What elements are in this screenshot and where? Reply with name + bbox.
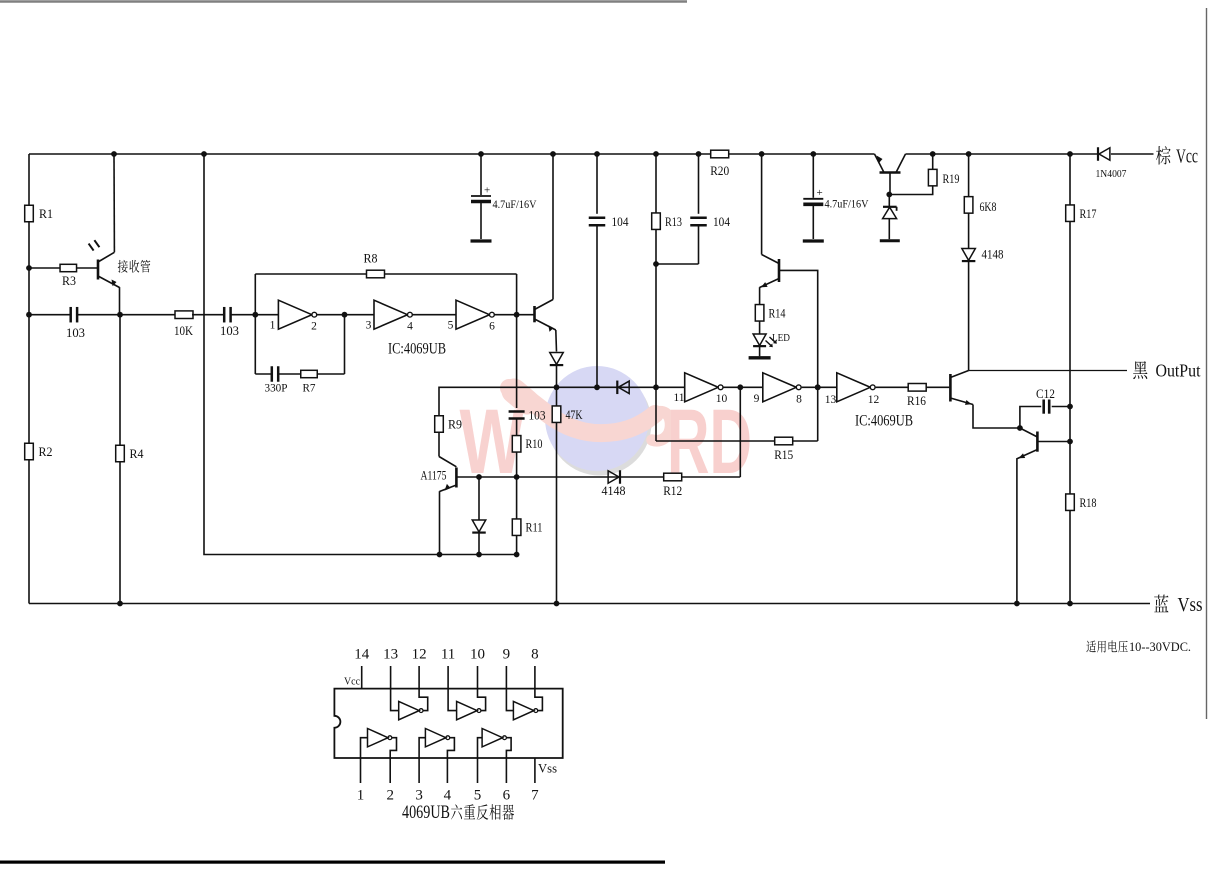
node R3 junction: [26, 265, 32, 271]
svg-text:Vss: Vss: [538, 761, 557, 776]
node R13 elbow: [653, 261, 659, 267]
node inverter1 input: [252, 312, 258, 318]
wire 104a top: [596, 154, 598, 214]
pin 12 stub: [412, 647, 427, 689]
label Vcc pin14: [344, 676, 360, 688]
node 104a mid: [594, 384, 600, 390]
watermark globe shadow: [548, 371, 652, 476]
svg-text:12: 12: [868, 394, 880, 406]
wire 6K8-D3: [968, 213, 970, 248]
watermark RD letters: [667, 391, 752, 493]
wire R8 loop right: [516, 274, 518, 315]
wire base-R12 corner: [739, 387, 741, 477]
wire 554 line: [204, 154, 517, 555]
wire R15 right up: [817, 387, 819, 441]
transistor Q6 receiver 接收管: [98, 252, 120, 314]
node rail x698: [696, 151, 702, 157]
svg-text:IC:4069UB: IC:4069UB: [855, 413, 913, 430]
inverter U1B pins 3-4: [366, 300, 414, 332]
svg-text:103: 103: [66, 326, 85, 340]
wire 330P loop left: [254, 315, 256, 374]
svg-text:10: 10: [716, 393, 728, 405]
label LED: [772, 333, 790, 344]
node zener base: [886, 192, 892, 198]
svg-text:R9: R9: [448, 418, 462, 432]
label IC:4069UB first: [388, 341, 446, 358]
node rail x114: [111, 151, 117, 157]
wire left bus top: [28, 154, 30, 205]
svg-text:4: 4: [407, 321, 413, 333]
label black OutPut: [1133, 361, 1200, 381]
svg-text:IC:4069UB: IC:4069UB: [388, 341, 446, 358]
top border line: [0, 0, 687, 2]
wire input seg2: [78, 314, 176, 316]
svg-text:10: 10: [470, 647, 485, 663]
resistor R18: [1066, 494, 1097, 511]
wire input seg3: [192, 314, 224, 316]
node A1175 emitter 554: [437, 552, 443, 558]
resistor R1: [25, 205, 53, 222]
svg-text:R4: R4: [130, 447, 145, 461]
label voltage note: [1086, 640, 1191, 654]
node Q7 emitter vss: [1014, 601, 1020, 607]
svg-text:R12: R12: [663, 484, 682, 498]
wire D3 down: [968, 261, 970, 370]
svg-text:10--30VDC.: 10--30VDC.: [1129, 640, 1191, 654]
node input junction left: [26, 312, 32, 318]
svg-text:13: 13: [383, 647, 398, 663]
node Q1-Q2 junction: [1017, 425, 1023, 431]
wire to Vcc terminal: [1111, 153, 1154, 155]
resistor R13: [652, 213, 682, 230]
pin 6 stub: [503, 758, 511, 804]
svg-text:47K: 47K: [566, 408, 583, 422]
wire LED collector: [761, 154, 763, 255]
svg-text:LED: LED: [772, 333, 790, 344]
capacitor 103 second: [220, 307, 239, 338]
resistor R21 6K8: [964, 154, 996, 214]
IC inverter top 2: [448, 689, 486, 720]
svg-text:1: 1: [270, 320, 276, 332]
inverter U1A pins 1-2: [270, 300, 318, 332]
svg-text:R10: R10: [526, 437, 543, 451]
svg-text:9: 9: [754, 393, 760, 405]
resistor R12: [663, 473, 682, 498]
transistor Q3 LED driver: [760, 255, 818, 388]
capacitor C12: [1020, 387, 1070, 428]
transistor Q5 series regulator: [875, 154, 906, 195]
node rail x204: [201, 151, 207, 157]
svg-text:5: 5: [474, 788, 482, 804]
wire Vcc rail mid segment: [729, 153, 875, 155]
capacitor C5 103: [509, 409, 546, 423]
resistor R11: [512, 477, 542, 555]
wire elbow 104b: [656, 263, 699, 265]
wire 330P seg: [255, 373, 271, 375]
wire inv3-inv5: [412, 314, 456, 316]
diode D4 1N4007: [1096, 147, 1127, 180]
transistor Q7: [1017, 428, 1070, 604]
wire R13 top: [655, 154, 657, 213]
node rail R17: [1067, 151, 1073, 157]
resistor R16: [907, 384, 926, 409]
svg-text:104: 104: [713, 215, 731, 229]
svg-text:R16: R16: [907, 394, 926, 408]
node rail x481: [478, 151, 484, 157]
svg-text:R15: R15: [774, 448, 793, 462]
IC inverter top 3: [506, 689, 542, 720]
pin 7 stub: [531, 758, 539, 804]
node mixer: [554, 384, 560, 390]
svg-text:3: 3: [366, 320, 372, 332]
wire OutPut line: [969, 370, 1127, 372]
svg-text:R19: R19: [943, 172, 960, 186]
node rail x553: [550, 151, 556, 157]
resistor R5 10K: [174, 311, 193, 338]
resistor R4: [116, 445, 145, 462]
bottom border bar: [0, 861, 665, 864]
wire Vcc rail right segment: [906, 153, 1099, 155]
pin 1 stub: [357, 758, 365, 804]
wire R14-LED: [759, 321, 761, 334]
node Q7 collector: [1067, 439, 1073, 445]
node inv10 out: [737, 384, 743, 390]
svg-text:R1: R1: [39, 207, 53, 221]
svg-text:A1175: A1175: [421, 469, 447, 483]
diode D6 mid: [617, 381, 629, 395]
svg-text:7: 7: [531, 788, 539, 804]
svg-text:Vcc: Vcc: [344, 676, 360, 688]
resistor R7: [301, 370, 318, 394]
svg-text:9: 9: [503, 647, 511, 663]
capacitor 330P: [265, 366, 288, 394]
wire LED-gnd: [759, 347, 761, 357]
light arrows into receiver: [89, 240, 100, 250]
resistor R3: [60, 264, 77, 288]
node R4 vss: [117, 601, 123, 607]
svg-text:+: +: [484, 185, 490, 197]
wire collector x553: [552, 154, 554, 300]
wire R8 loop left: [254, 274, 256, 315]
wire input seg1: [29, 314, 70, 316]
wire R7 right: [317, 373, 344, 375]
pin 9 stub: [503, 647, 511, 689]
capacitor C4 4.7uF/16V: [803, 154, 869, 239]
svg-text:4148: 4148: [982, 248, 1004, 262]
transistor Q2 A1175: [439, 457, 456, 555]
resistor R6 47K: [552, 387, 582, 603]
diode D7: [472, 477, 486, 555]
wire Vss left corner: [28, 603, 30, 605]
svg-text:11: 11: [673, 392, 684, 404]
transistor Q4: [535, 300, 557, 352]
pin 11 stub: [441, 647, 455, 689]
svg-text:6: 6: [503, 788, 511, 804]
inverter U1C pins 5-6: [448, 300, 496, 332]
node R11 554: [514, 552, 520, 558]
IC inverter bottom 1: [361, 729, 397, 759]
wire Vcc rail left segment: [29, 153, 711, 155]
node rail 6K8: [966, 151, 972, 157]
inverter U1F pins 11-10: [673, 373, 727, 405]
wire loop right up: [344, 315, 346, 374]
label brown Vcc: [1156, 146, 1198, 168]
svg-text:330P: 330P: [265, 381, 288, 395]
ground zener: [880, 239, 900, 242]
wire R17 top: [1069, 154, 1071, 205]
svg-text:Vcc: Vcc: [1176, 146, 1198, 168]
resistor R9: [435, 416, 462, 457]
svg-text:4148: 4148: [602, 484, 626, 498]
svg-text:8: 8: [531, 647, 539, 663]
svg-text:R3: R3: [62, 274, 76, 288]
svg-text:R17: R17: [1080, 207, 1097, 221]
svg-text:R20: R20: [710, 164, 729, 178]
svg-text:1: 1: [357, 788, 365, 804]
svg-text:4.7uF/16V: 4.7uF/16V: [493, 199, 538, 211]
svg-text:6K8: 6K8: [980, 200, 997, 214]
IC inverter bottom 3: [478, 729, 512, 759]
wire R15 seg2: [792, 440, 818, 442]
watermark W letter: [460, 391, 525, 493]
svg-text:4069UB: 4069UB: [402, 802, 450, 823]
label blue Vss: [1154, 594, 1203, 616]
node R11 top: [514, 474, 520, 480]
wire R17 down: [1069, 222, 1071, 604]
capacitor C1 4.7uF/16V: [471, 154, 537, 239]
resistor R17: [1066, 205, 1097, 222]
svg-text:103: 103: [220, 324, 239, 338]
wire C5-R10: [516, 419, 518, 437]
svg-text:Vss: Vss: [1178, 594, 1203, 616]
wire R15 left: [655, 387, 657, 441]
node R13 mid: [653, 384, 659, 390]
svg-text:11: 11: [441, 647, 455, 663]
node C12 right: [1067, 404, 1073, 410]
svg-text:+: +: [817, 187, 823, 199]
svg-text:6: 6: [489, 321, 495, 333]
label 4069UB caption: [402, 802, 514, 823]
wire inv9-inv13: [802, 386, 837, 388]
pin 8 stub: [531, 647, 539, 689]
wire R3 left: [29, 267, 60, 269]
wire 104b top: [698, 154, 700, 214]
svg-text:R8: R8: [364, 252, 378, 266]
resistor R19: [889, 154, 959, 195]
node Q3 base feed: [815, 384, 821, 390]
resistor R10: [512, 436, 542, 453]
inverter U1E pins 9-8: [754, 373, 803, 406]
label IC:4069UB second: [855, 413, 913, 430]
svg-text:2: 2: [386, 788, 394, 804]
pin 4 stub: [444, 758, 452, 804]
node rail x761: [759, 151, 765, 157]
node diode drop: [476, 474, 482, 480]
ground C4: [803, 239, 824, 242]
IC inverter top 1: [391, 689, 428, 720]
node rail R19: [930, 151, 936, 157]
resistor R2: [25, 443, 53, 460]
label Vss pin7: [538, 761, 557, 776]
wire 104b bottom: [698, 225, 700, 264]
wire R15 seg1: [656, 440, 775, 442]
pin 3 stub: [415, 758, 423, 804]
wire R16-Q1: [926, 386, 949, 388]
inverter U1D pins 13-12: [825, 373, 880, 406]
wire R4 vertical: [119, 315, 121, 604]
pin 10 stub: [470, 647, 485, 689]
node rail x597: [594, 151, 600, 157]
svg-text:OutPut: OutPut: [1156, 361, 1201, 381]
svg-text:R7: R7: [303, 381, 316, 395]
svg-text:12: 12: [412, 647, 427, 663]
resistor R20: [710, 150, 729, 178]
svg-text:R14: R14: [769, 307, 787, 321]
svg-text:2: 2: [311, 321, 317, 333]
pin 2 stub: [386, 758, 394, 804]
node emitter input: [117, 312, 123, 318]
label A1175: [421, 469, 447, 483]
wire inv11-inv9: [724, 386, 763, 388]
ground LED: [749, 356, 771, 359]
wire inv12 out: [876, 386, 908, 388]
node rail x813: [810, 151, 816, 157]
svg-text:R18: R18: [1080, 496, 1097, 510]
svg-text:R13: R13: [665, 215, 682, 229]
wire collector drop x114: [113, 154, 115, 252]
wire R3 right: [77, 267, 99, 269]
wire node6 down: [516, 315, 518, 408]
IC body: [334, 689, 562, 758]
pin 14 stub: [354, 647, 370, 689]
wire mid line left elbow: [439, 387, 685, 416]
node 47K vss: [554, 601, 560, 607]
right border line: [1206, 8, 1208, 719]
watermark swoosh: [509, 388, 671, 441]
transistor Q1: [950, 371, 1020, 429]
node feedback tap: [342, 312, 348, 318]
capacitor C2 104: [589, 215, 629, 229]
wire R13 bottom: [655, 230, 657, 388]
diode D8 4148: [602, 470, 626, 498]
ground C1: [471, 239, 492, 242]
resistor R8: [364, 252, 385, 278]
label receiver 接收管: [118, 260, 151, 273]
diode D1: [550, 353, 564, 366]
svg-text:1N4007: 1N4007: [1096, 168, 1127, 180]
pin 13 stub: [383, 647, 398, 689]
pin 5 stub: [474, 758, 482, 804]
wire input seg4: [231, 314, 278, 316]
capacitor 103 input: [66, 307, 85, 340]
wire base line: [456, 476, 740, 478]
wire R10 down: [516, 452, 518, 477]
node R17 vss: [1067, 601, 1073, 607]
svg-text:R11: R11: [526, 521, 543, 535]
resistor R15: [774, 437, 793, 462]
wire LED emitter: [759, 287, 761, 304]
wire R8 loop top2: [384, 273, 516, 275]
zener D5: [883, 195, 897, 240]
node rail x656: [653, 151, 659, 157]
svg-text:10K: 10K: [174, 324, 193, 338]
wire 104a bottom: [596, 225, 598, 387]
watermark globe: [545, 366, 649, 471]
wire D1 to node: [556, 365, 558, 387]
wire 330P-R7: [279, 373, 301, 375]
svg-text:R2: R2: [39, 445, 53, 459]
node D7 554: [476, 552, 482, 558]
svg-text:104: 104: [612, 215, 630, 229]
wire left bus bottom: [28, 222, 30, 604]
LED D2: [753, 334, 777, 347]
diode D3 4148: [962, 248, 1004, 262]
svg-text:8: 8: [796, 394, 802, 406]
wire inv5 out: [494, 314, 534, 316]
svg-text:C12: C12: [1036, 387, 1055, 401]
wire inv1-inv3: [317, 314, 374, 316]
wire R8 loop top1: [255, 273, 366, 275]
node 6 junction: [514, 312, 520, 318]
node 8 junction: [815, 384, 821, 390]
wire Vss line: [29, 603, 1150, 605]
resistor R14: [755, 305, 786, 322]
svg-text:13: 13: [825, 394, 837, 406]
IC inverter bottom 2: [419, 729, 454, 759]
svg-text:5: 5: [448, 320, 454, 332]
capacitor C3 104: [690, 215, 730, 229]
svg-text:14: 14: [354, 647, 370, 663]
svg-text:4.7uF/16V: 4.7uF/16V: [825, 199, 870, 211]
svg-text:103: 103: [529, 409, 546, 423]
